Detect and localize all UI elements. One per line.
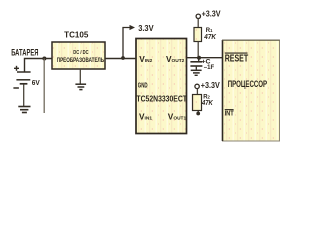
svg-text:3.3V: 3.3V	[138, 23, 154, 33]
svg-text:TC105: TC105	[64, 31, 89, 40]
svg-text:ПРОЦЕССОР: ПРОЦЕССОР	[228, 79, 268, 90]
svg-text:+3.3V: +3.3V	[201, 81, 221, 90]
svg-text:ПРЕОБРАЗОВАТЕЛЬ: ПРЕОБРАЗОВАТЕЛЬ	[57, 57, 105, 64]
svg-text:–1F: –1F	[204, 64, 214, 71]
svg-text:47K: 47K	[203, 32, 216, 41]
svg-text:INT: INT	[225, 108, 235, 117]
svg-text:+3.3V: +3.3V	[202, 9, 222, 18]
svg-text:TC52N3330ECT: TC52N3330ECT	[136, 95, 187, 104]
svg-text:47K: 47K	[201, 98, 213, 107]
svg-text:GND: GND	[138, 81, 148, 90]
svg-text:DC / DC: DC / DC	[73, 50, 89, 56]
svg-text:RESET: RESET	[225, 53, 249, 65]
svg-text:БАТАРЕЯ: БАТАРЕЯ	[11, 47, 38, 57]
svg-text:6V: 6V	[32, 78, 41, 87]
